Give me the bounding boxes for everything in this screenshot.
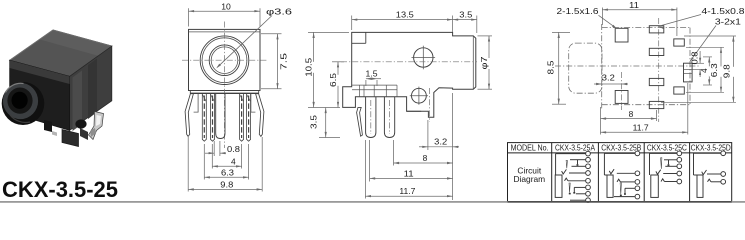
side view: bent front pin [357,107,363,136]
table: circuit diagram CKX-3.5-25A [555,151,590,202]
top view: centerlines [555,18,700,122]
table: header CKX-3.5-25D [691,144,731,153]
svg-text:2-1.5x1.6: 2-1.5x1.6 [557,6,599,16]
top view dim 8 bottom [601,107,657,135]
front view dim 4 [212,144,241,169]
svg-text:8: 8 [629,109,634,119]
svg-text:8.5: 8.5 [546,60,556,74]
svg-text:4: 4 [699,68,709,73]
table: circuit diagram CKX-3.5-25D [694,151,726,197]
table: header MODEL No. [511,144,549,153]
svg-text:13.5: 13.5 [396,10,414,20]
top view: body outline dash-dot [602,24,690,110]
side view dim 13.5 [352,10,453,32]
svg-text:3.2: 3.2 [602,73,615,82]
svg-text:Diagram: Diagram [513,174,545,184]
svg-text:11: 11 [404,168,414,178]
svg-text:3.5: 3.5 [308,115,318,129]
svg-text:10: 10 [221,1,231,11]
svg-text:0.8: 0.8 [227,145,240,154]
top view: barrel outline dash-dot rounded [569,43,602,93]
front view: body outline [189,29,261,93]
title text CKX-3.5-25 [2,177,118,202]
svg-text:MODEL No.: MODEL No. [511,144,549,153]
svg-text:9.8: 9.8 [220,180,233,190]
svg-text:7.5: 7.5 [279,53,289,70]
side view: body outline [343,32,476,117]
front view: lower strip second line [190,91,258,113]
side view: round legs [366,97,395,138]
side view: mounting holes with cross [410,46,435,105]
side view dim 6.5 [325,62,347,108]
svg-text:11: 11 [629,0,639,10]
svg-text:11.7: 11.7 [633,122,649,132]
table: grid [508,143,732,202]
top view: vertical pad 3-2x1 [684,63,693,82]
side view dim 3.5 left [308,108,340,138]
svg-text:φ3.6: φ3.6 [266,7,293,17]
front view: left wing leg [185,94,193,137]
side view: rear peg centerline [429,88,431,122]
top view: peg pads 2-1.5x1.6 [615,28,628,103]
svg-text:6.3: 6.3 [221,167,234,177]
table: header CKX-3.5-25A [555,144,595,153]
top view dim 9.8 right [661,36,738,102]
table: header CKX-3.5-25C [647,144,687,153]
top view label 4-1.5x0.8 with leader [658,6,745,29]
side view: centerline [341,61,496,63]
top view dim 3.2 [594,73,628,85]
table: Circuit Diagram cell text [513,165,545,184]
top view label 3-2x1 with leader [690,16,742,62]
svg-text:φ7: φ7 [479,56,489,69]
svg-text:CKX-3.5-25: CKX-3.5-25 [2,177,118,202]
side view dim 3.2 [419,93,459,200]
top view dim 11.7 bottom [601,83,688,135]
table: header CKX-3.5-25B [601,144,641,153]
svg-text:3.2: 3.2 [434,137,447,146]
top view label 2-1.5x1.6 with leader [557,6,618,29]
svg-text:6.3: 6.3 [709,63,719,77]
front view dim 6.3 [204,144,248,180]
front view dim 7.5 right [261,34,289,89]
front view: center pin rounded [216,94,225,139]
svg-text:6.5: 6.5 [328,73,338,87]
top view dim 0.8 right [690,51,704,77]
side view dim 11 [370,140,453,182]
svg-text:11.7: 11.7 [399,186,415,196]
side view dim 10.5 [299,32,349,107]
top view dim 6.3 right [686,47,726,92]
front view dim phi3.6 leader [216,7,292,69]
svg-text:3.5: 3.5 [459,10,472,20]
svg-text:8: 8 [423,153,428,163]
top view: pin pads column 1 [649,26,664,109]
side view dim 11.7 [365,140,452,199]
top view dim 8.5 left [546,32,571,104]
front view: jack opening circles [200,36,249,85]
page bottom rule [0,201,745,203]
front view dim 9.8 [188,137,262,192]
top view dim 4 right [699,57,712,85]
table: circuit diagram CKX-3.5-25B [604,151,639,199]
front view: right wing leg [256,94,264,137]
svg-text:4: 4 [231,156,236,166]
svg-text:0.8: 0.8 [690,51,699,64]
svg-text:1.5: 1.5 [366,69,378,78]
svg-text:9.8: 9.8 [722,64,732,78]
svg-text:10.5: 10.5 [304,58,314,77]
side view dim 3.5 top [453,10,477,33]
front view: four solder pins [202,94,250,142]
front view dim 0.8 [205,141,240,156]
top view: pin pads column 2 [674,39,685,94]
front view dim 10 top [189,1,261,26]
photo: jack connector isometric product image [2,30,112,147]
side view dim 8 [394,140,453,166]
side view dim 1.5 [366,69,382,86]
svg-text:3-2x1: 3-2x1 [715,16,741,26]
side view dim phi7 [477,36,497,89]
table: circuit diagram CKX-3.5-25C [650,151,682,197]
top view dim 11 top [602,0,677,36]
front view: centerlines [182,22,267,149]
svg-text:4-1.5x0.8: 4-1.5x0.8 [702,6,745,16]
